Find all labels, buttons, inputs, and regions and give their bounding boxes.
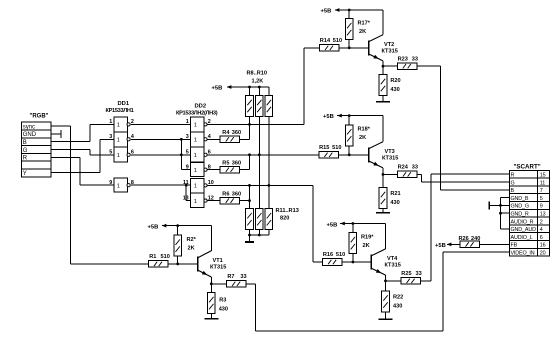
svg-text:sync: sync: [23, 124, 35, 130]
svg-text:1,2K: 1,2K: [252, 78, 264, 84]
svg-text:B: B: [511, 188, 515, 194]
svg-text:GND_B: GND_B: [511, 196, 529, 202]
svg-text:GND: GND: [23, 132, 37, 138]
svg-text:510: 510: [333, 38, 342, 44]
svg-text:G: G: [511, 180, 515, 186]
svg-text:КТ315: КТ315: [382, 155, 398, 161]
svg-text:R3: R3: [219, 297, 226, 303]
svg-text:1: 1: [117, 153, 120, 159]
svg-text:+5В: +5В: [148, 224, 159, 230]
svg-text:20: 20: [540, 251, 546, 257]
svg-text:AUDIO_R: AUDIO_R: [511, 219, 534, 225]
svg-text:6: 6: [540, 235, 543, 241]
svg-text:5: 5: [540, 196, 543, 202]
svg-text:2K: 2K: [188, 245, 195, 251]
svg-text:R18*: R18*: [358, 127, 371, 133]
svg-text:GND_AUD: GND_AUD: [511, 227, 537, 233]
svg-text:430: 430: [393, 303, 402, 309]
svg-text:16: 16: [540, 243, 546, 249]
svg-text:R15: R15: [319, 145, 329, 151]
svg-text:+5В: +5В: [435, 243, 446, 249]
svg-text:510: 510: [332, 145, 341, 151]
svg-text:510: 510: [161, 254, 170, 260]
svg-text:VT4: VT4: [387, 256, 398, 262]
svg-text:R6: R6: [222, 192, 229, 198]
svg-text:R5: R5: [222, 160, 229, 166]
svg-text:R7: R7: [227, 274, 234, 280]
svg-text:1: 1: [194, 138, 197, 144]
svg-text:820: 820: [280, 216, 289, 222]
svg-text:КТ315: КТ315: [385, 263, 401, 269]
svg-text:4: 4: [540, 227, 543, 233]
svg-text:R8..R10: R8..R10: [247, 71, 268, 77]
svg-text:КР1533ЛН1: КР1533ЛН1: [106, 108, 134, 114]
svg-text:AUDIO_L: AUDIO_L: [511, 235, 533, 241]
svg-text:+5В: +5В: [321, 8, 332, 14]
svg-text:VT1: VT1: [213, 258, 223, 264]
svg-text:1: 1: [194, 153, 197, 159]
svg-text:430: 430: [390, 87, 399, 93]
svg-text:FB: FB: [511, 243, 518, 249]
svg-text:360: 360: [232, 160, 241, 166]
svg-text:1: 1: [194, 199, 197, 205]
svg-text:КР1533ЛН2(ЛН3): КР1533ЛН2(ЛН3): [176, 110, 218, 116]
svg-text:DD2: DD2: [195, 103, 207, 109]
svg-text:7: 7: [540, 188, 543, 194]
svg-text:R: R: [511, 173, 515, 179]
svg-text:R4: R4: [222, 130, 230, 136]
svg-text:G: G: [23, 148, 28, 154]
svg-text:+5В: +5В: [212, 85, 223, 91]
svg-text:DD1: DD1: [118, 101, 130, 107]
svg-text:R: R: [23, 156, 28, 162]
svg-text:R11..R13: R11..R13: [276, 208, 299, 214]
svg-text:R1: R1: [149, 254, 156, 260]
svg-text:"RGB": "RGB": [30, 113, 49, 119]
svg-text:"SCART": "SCART": [514, 163, 541, 170]
svg-text:1: 1: [194, 168, 197, 174]
svg-text:33: 33: [412, 164, 418, 170]
svg-text:430: 430: [219, 306, 228, 312]
svg-text:1: 1: [194, 184, 197, 190]
svg-text:R25: R25: [401, 271, 411, 277]
svg-text:2: 2: [540, 219, 543, 225]
svg-text:9: 9: [540, 204, 543, 210]
svg-text:R21: R21: [390, 191, 400, 197]
svg-text:GND_G: GND_G: [511, 204, 529, 210]
svg-text:B: B: [23, 140, 27, 146]
svg-text:+5В: +5В: [323, 114, 334, 120]
svg-text:510: 510: [336, 252, 345, 258]
svg-text:360: 360: [232, 130, 241, 136]
svg-text:33: 33: [240, 274, 246, 280]
svg-text:11: 11: [540, 180, 546, 186]
svg-text:360: 360: [232, 192, 241, 198]
svg-text:КТ315: КТ315: [382, 49, 398, 55]
svg-text:15: 15: [540, 173, 546, 179]
svg-text:R19*: R19*: [361, 235, 374, 241]
svg-text:GND_R: GND_R: [511, 212, 529, 218]
svg-text:R17*: R17*: [358, 20, 371, 26]
svg-text:13: 13: [540, 212, 546, 218]
svg-text:VT3: VT3: [385, 149, 395, 155]
svg-text:2K: 2K: [359, 29, 366, 35]
svg-text:Y: Y: [23, 171, 27, 177]
svg-text:R20: R20: [390, 78, 400, 84]
svg-text:1: 1: [194, 123, 197, 129]
svg-text:R16: R16: [323, 252, 333, 258]
svg-text:33: 33: [416, 271, 422, 277]
svg-text:КТ315: КТ315: [210, 264, 226, 270]
svg-text:R22: R22: [393, 294, 403, 300]
svg-text:R14: R14: [320, 38, 331, 44]
svg-text:2K: 2K: [363, 243, 370, 249]
svg-text:1: 1: [117, 138, 120, 144]
svg-text:VIDEO_IN: VIDEO_IN: [511, 251, 535, 257]
svg-text:2K: 2K: [359, 135, 366, 141]
svg-text:33: 33: [412, 56, 418, 62]
svg-text:R23: R23: [398, 56, 408, 62]
svg-text:1: 1: [117, 123, 120, 129]
svg-text:R2*: R2*: [187, 237, 197, 243]
svg-text:VT2: VT2: [384, 42, 394, 48]
svg-text:1: 1: [117, 183, 120, 189]
svg-text:+5В: +5В: [327, 222, 338, 228]
svg-text:430: 430: [390, 200, 399, 206]
svg-text:R24: R24: [398, 164, 409, 170]
